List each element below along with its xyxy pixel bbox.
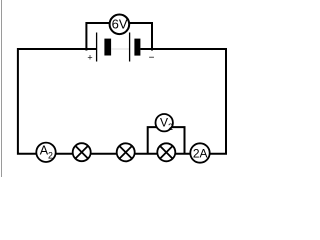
wire voltmeter branch left leg [86, 23, 111, 51]
battery B1 cell2 short thick plate (-) [134, 39, 140, 56]
ammeter A2 [36, 143, 55, 162]
svg-text:−: − [149, 53, 155, 64]
battery B1 cell1 long plate (+) [96, 33, 98, 62]
wire V2 branch left leg [148, 127, 158, 154]
wire faint inter-cell connector [112, 48, 130, 50]
ammeter A1 2A [190, 143, 209, 162]
battery B1 cell1 short thick plate (-) [104, 39, 111, 56]
svg-text:+: + [87, 53, 92, 63]
lamp L1 [73, 143, 91, 161]
svg-text:6V: 6V [112, 16, 128, 31]
lamp L3 [157, 143, 175, 161]
wire V2 branch right leg [171, 127, 185, 154]
voltmeter V2 [156, 114, 173, 131]
wire voltmeter branch right leg [128, 23, 152, 51]
battery B1 cell2 long plate (+) [129, 33, 131, 62]
wire main loop [18, 49, 226, 154]
left page border line [1, 0, 3, 177]
svg-text:2A: 2A [193, 147, 208, 161]
lamp L2 [117, 143, 135, 161]
voltmeter U1 6V [110, 14, 130, 34]
